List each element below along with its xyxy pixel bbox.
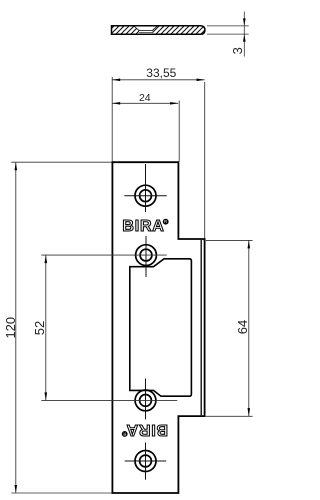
svg-text:64: 64 xyxy=(235,320,250,334)
svg-text:24: 24 xyxy=(139,92,151,104)
svg-text:52: 52 xyxy=(32,321,47,335)
svg-text:33,55: 33,55 xyxy=(146,66,176,80)
svg-text:3: 3 xyxy=(230,47,245,54)
svg-text:120: 120 xyxy=(3,317,18,339)
